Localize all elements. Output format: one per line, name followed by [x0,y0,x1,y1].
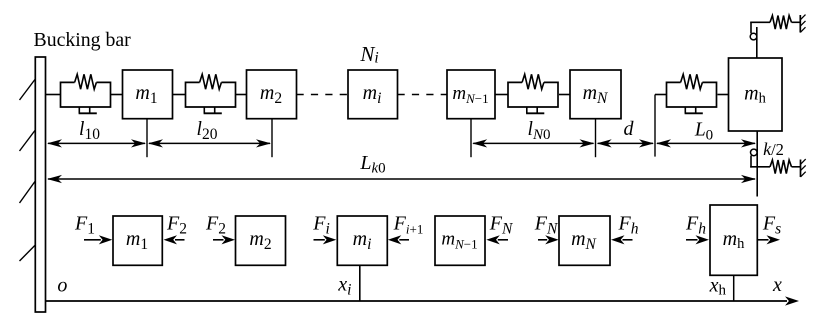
svg-text:d: d [624,118,635,140]
svg-text:o: o [57,274,67,296]
svg-text:Bucking bar: Bucking bar [34,29,132,51]
svg-text:x: x [772,274,782,296]
svg-text:k/2: k/2 [763,139,784,159]
